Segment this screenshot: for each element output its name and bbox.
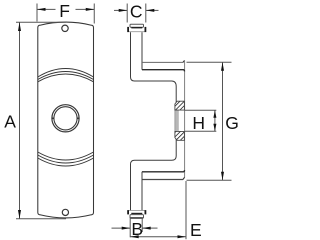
svg-text:B: B: [131, 219, 143, 239]
svg-text:C: C: [130, 2, 143, 22]
svg-text:H: H: [192, 113, 205, 133]
svg-text:A: A: [4, 111, 16, 131]
svg-text:E: E: [190, 220, 202, 240]
svg-text:G: G: [225, 113, 239, 133]
svg-text:F: F: [59, 1, 70, 21]
